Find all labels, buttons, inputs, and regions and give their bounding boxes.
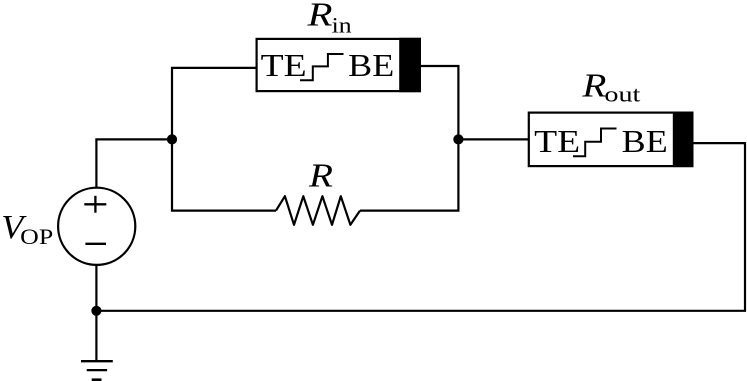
node B <box>453 134 463 144</box>
svg-text:R: R <box>581 67 606 104</box>
label R_in <box>306 0 351 37</box>
voltage source V_OP <box>58 188 135 265</box>
resistor R <box>276 196 360 225</box>
label V_OP <box>1 209 53 249</box>
svg-text:out: out <box>604 82 640 107</box>
TE-BE element R_in: black band <box>399 38 421 92</box>
svg-text:OP: OP <box>20 224 53 249</box>
label R_out <box>581 67 640 106</box>
wire from R_in right pin to node B <box>420 66 459 139</box>
svg-text:TE: TE <box>534 124 580 159</box>
TE-BE element R_out: black band <box>673 112 694 168</box>
svg-text:BE: BE <box>348 48 394 83</box>
TE-BE element R_in: staircase symbol <box>300 54 344 80</box>
node A <box>167 134 177 144</box>
TE-BE element R_in: box outline <box>257 39 420 91</box>
wire from voltage source bottom to ground <box>95 265 97 361</box>
wire from node B down to resistor R right lead <box>360 139 458 210</box>
TE-BE element R_out: staircase symbol <box>573 129 617 157</box>
wire from node A up to R_in left pin <box>172 68 257 139</box>
wire from node A left to voltage source top <box>96 139 172 188</box>
wire from node B to R_out left pin <box>458 138 528 140</box>
TE-BE element R_out: box outline <box>529 113 693 167</box>
wire from R_out right pin down right edge to bottom node C <box>96 143 745 311</box>
wire from node A down to resistor R left lead <box>172 139 276 210</box>
ground <box>81 361 113 380</box>
svg-text:R: R <box>306 0 332 34</box>
svg-text:in: in <box>332 12 352 37</box>
svg-text:R: R <box>308 157 333 194</box>
svg-text:TE: TE <box>261 48 307 83</box>
svg-text:BE: BE <box>622 124 668 159</box>
node C <box>91 306 101 316</box>
